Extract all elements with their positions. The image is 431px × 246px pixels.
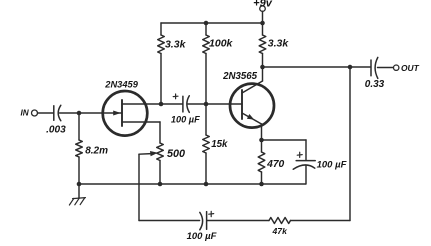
svg-text:100 µF: 100 µF: [171, 114, 200, 124]
svg-text:3.3k: 3.3k: [165, 39, 187, 51]
svg-text:2N3565: 2N3565: [222, 71, 258, 82]
svg-text:.003: .003: [46, 125, 66, 136]
svg-text:500: 500: [167, 148, 185, 160]
svg-text:47k: 47k: [272, 226, 289, 236]
svg-text:100 µF: 100 µF: [317, 159, 347, 170]
svg-text:100 µF: 100 µF: [187, 231, 217, 242]
svg-text:OUT: OUT: [401, 63, 420, 73]
svg-text:+9v: +9v: [253, 0, 273, 10]
svg-text:100k: 100k: [209, 38, 234, 50]
svg-text:470: 470: [266, 159, 284, 170]
svg-text:3.3k: 3.3k: [268, 38, 290, 50]
svg-text:0.33: 0.33: [365, 79, 385, 90]
svg-text:IN: IN: [21, 109, 30, 118]
svg-text:15k: 15k: [211, 139, 228, 150]
svg-text:2N3459: 2N3459: [104, 80, 138, 90]
svg-text:8.2m: 8.2m: [85, 146, 108, 157]
